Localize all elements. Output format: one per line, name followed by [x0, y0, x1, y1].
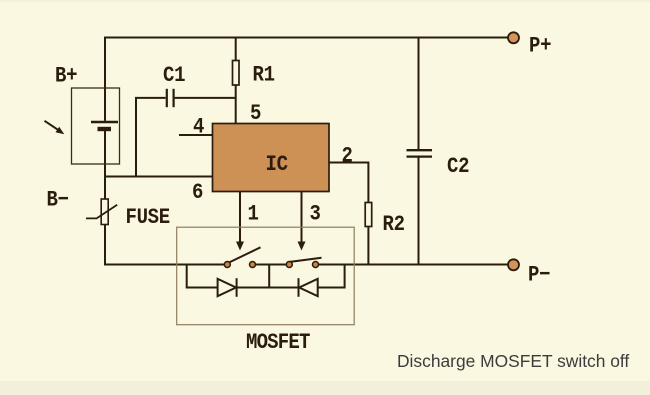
wire bottom rail left segment [104, 264, 224, 266]
svg-text:R1: R1 [253, 63, 275, 88]
svg-text:4: 4 [193, 115, 204, 140]
wire mosfet diode loop left vertical [187, 265, 218, 288]
wire pin4 stub [179, 134, 213, 136]
switch SW1 blade (open) [228, 247, 261, 263]
resistor R2 body [365, 203, 372, 227]
svg-text:Discharge MOSFET switch off: Discharge MOSFET switch off [397, 351, 629, 371]
battery B1 plates [91, 122, 118, 129]
switch contact node circles [224, 262, 318, 268]
wire C2 vertical lower [418, 158, 420, 265]
pin3 arrowhead [298, 242, 306, 251]
wire battery top drop [104, 37, 106, 121]
wire bottom rail right segment [316, 264, 509, 266]
diode D1 (points right) [218, 278, 237, 297]
svg-text:2: 2 [342, 144, 353, 169]
wire diode loop between middle and D2 [269, 287, 298, 289]
battery pointer arrow [45, 121, 65, 134]
svg-text:B−: B− [47, 188, 69, 213]
terminal P+ [508, 32, 519, 43]
svg-text:B+: B+ [55, 64, 77, 89]
svg-text:C2: C2 [447, 155, 469, 180]
terminal P- [508, 259, 519, 270]
resistor R1 body [233, 61, 240, 86]
svg-text:FUSE: FUSE [126, 206, 170, 231]
wire diode loop right vertical [318, 265, 345, 288]
svg-text:P−: P− [528, 263, 550, 288]
MOSFET dashed enclosure box [177, 227, 355, 325]
diode D2 (points left) [299, 278, 318, 297]
svg-text:MOSFET: MOSFET [246, 331, 310, 356]
wire R1 vertical (top rail to IC pin5) [235, 38, 237, 124]
svg-text:1: 1 [248, 202, 259, 227]
svg-text:6: 6 [192, 181, 203, 206]
wire battery bottom to fuse to bottom rail corner [104, 131, 106, 264]
capacitor C2 plates [407, 150, 433, 156]
battery box [72, 88, 120, 164]
fuse diagonal stroke [86, 205, 117, 219]
wire C1 right to R1 node [175, 97, 236, 99]
wire C2 vertical upper [418, 37, 420, 150]
wire diode loop middle vertical [268, 265, 270, 288]
wire R2 bottom [367, 227, 369, 265]
wire pin6 net horizontal [105, 176, 213, 178]
svg-text:IC: IC [266, 153, 288, 178]
switch SW2 blade (closed) [289, 258, 322, 262]
IC U1 body [213, 124, 330, 192]
wire pin1 drop [239, 192, 241, 243]
wire bottom rail mid segment [253, 264, 290, 266]
wire top rail [105, 37, 508, 39]
svg-text:C1: C1 [163, 64, 185, 89]
pin1 arrowhead [236, 242, 244, 251]
wire pin2 to R2 [329, 163, 369, 203]
svg-text:P+: P+ [529, 34, 551, 59]
wire pin3 drop [301, 192, 303, 243]
wire diode loop between D1 and middle [237, 287, 270, 289]
wire C1 left branch [136, 98, 166, 177]
capacitor C1 plates [167, 89, 174, 107]
svg-text:R2: R2 [383, 213, 405, 238]
svg-text:3: 3 [310, 202, 321, 227]
fuse F1 body [101, 199, 108, 225]
svg-text:5: 5 [250, 102, 261, 127]
